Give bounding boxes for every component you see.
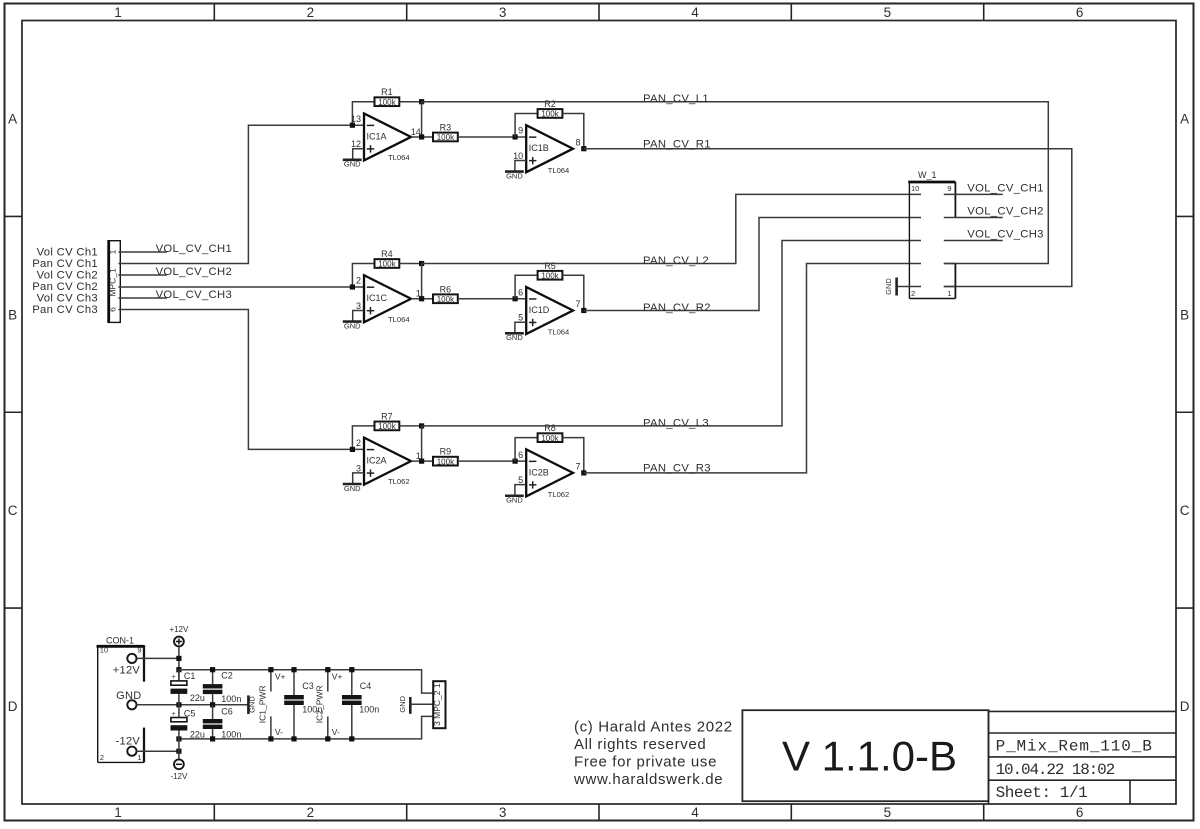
svg-text:100n: 100n <box>359 705 379 715</box>
svg-text:TL064: TL064 <box>388 315 410 324</box>
svg-text:R4: R4 <box>381 249 393 259</box>
svg-text:V-: V- <box>275 727 283 737</box>
svg-text:GND: GND <box>248 696 257 713</box>
node junction at IC1C inverting input <box>350 284 355 289</box>
CON-1 -12V pin circle <box>127 747 136 756</box>
svg-text:Vol CV Ch3: Vol CV Ch3 <box>37 293 98 305</box>
resistor R4 <box>375 249 400 269</box>
svg-text:Sheet: 1/1: Sheet: 1/1 <box>996 784 1088 802</box>
svg-text:GND: GND <box>116 690 141 702</box>
node junction at IC1A output <box>419 134 424 139</box>
svg-text:2: 2 <box>356 276 361 286</box>
wire MPC_1 pin 4 Pan CV Ch2 to IC1C <box>118 286 364 288</box>
ground symbol at IC1D <box>505 333 524 342</box>
svg-text:IC1D: IC1D <box>529 305 550 315</box>
ground symbol at W_1 pin 2 <box>884 278 897 296</box>
node junction C3 top <box>291 667 296 672</box>
wire R9 to IC2B inverting input <box>458 460 526 462</box>
node junction pin1/-12V <box>176 749 181 754</box>
wire IC2A output to R9 <box>411 460 433 462</box>
capacitor C4 <box>342 670 379 739</box>
svg-text:100k: 100k <box>541 271 559 280</box>
op-amp IC2A <box>356 438 421 487</box>
IC2B + input stub and ground wire <box>515 485 526 496</box>
svg-text:IC1A: IC1A <box>367 131 387 141</box>
svg-text:3 MPC_2 1: 3 MPC_2 1 <box>432 683 442 726</box>
wire net PAN_CV_R3 from IC2B output to W_1 pin 4 <box>584 264 921 473</box>
power flag IC1_PWR <box>257 670 285 739</box>
node junction IC1_PWR V+ <box>268 667 273 672</box>
wire W_1 pin 2 to ground <box>897 286 921 288</box>
svg-text:B: B <box>8 307 17 322</box>
W_1 pin 3 stub <box>944 263 956 265</box>
resistor R6 <box>433 284 458 304</box>
version box <box>742 710 988 801</box>
ground symbol at IC2B <box>505 496 524 505</box>
svg-text:TL062: TL062 <box>388 477 410 486</box>
svg-text:GND: GND <box>344 160 361 169</box>
wire MPC_1 pin 5 to net VOL_CV_CH3 <box>118 297 166 299</box>
svg-text:1: 1 <box>114 805 122 820</box>
svg-text:PAN_CV_R3: PAN_CV_R3 <box>643 463 711 475</box>
wire CON-1 pin 1 to -12V <box>137 750 179 752</box>
wire V+ rail <box>179 670 433 693</box>
wire ground to MPC_2 pin 2 <box>410 703 433 705</box>
node junction above IC2A output <box>419 423 424 428</box>
svg-text:100k: 100k <box>378 260 396 269</box>
capacitor C3 <box>284 670 322 739</box>
svg-text:1: 1 <box>947 289 951 298</box>
svg-text:100k: 100k <box>541 110 559 119</box>
node junction at IC1B inverting input <box>513 134 518 139</box>
svg-text:TL064: TL064 <box>548 328 570 337</box>
wire junction down to IC2A output <box>421 426 423 461</box>
svg-text:GND: GND <box>506 496 523 505</box>
svg-text:TL064: TL064 <box>388 153 410 162</box>
node junction C3 bottom <box>291 736 296 741</box>
capacitor C1 electrolytic <box>171 670 205 705</box>
svg-text:IC2_PWR: IC2_PWR <box>314 685 324 723</box>
svg-text:D: D <box>1180 699 1190 714</box>
ground symbol at IC1A <box>343 160 362 169</box>
node junction IC2_PWR V+ <box>325 667 330 672</box>
capacitor C2 <box>203 670 242 705</box>
node junction +12V rail start <box>176 667 181 672</box>
svg-text:GND: GND <box>506 333 523 342</box>
svg-text:5: 5 <box>884 805 892 820</box>
resistor R1 <box>375 87 400 107</box>
ground symbol at IC1C <box>343 321 362 330</box>
capacitor C5 electrolytic <box>171 708 205 739</box>
wire V- rail <box>179 716 433 739</box>
svg-text:9: 9 <box>518 126 523 136</box>
node junction C4 bottom <box>349 736 354 741</box>
op-amp IC2B <box>518 449 580 499</box>
column labels top <box>114 5 1083 20</box>
svg-text:6: 6 <box>518 450 523 460</box>
svg-text:PAN_CV_R2: PAN_CV_R2 <box>643 302 711 314</box>
node junction C2 top <box>210 667 215 672</box>
wire net PAN_CV_L2 from R4 junction to W_1 pin 10 <box>422 194 921 263</box>
resistor R8 <box>538 423 563 443</box>
svg-text:100n: 100n <box>221 729 241 739</box>
svg-text:3: 3 <box>499 5 507 20</box>
svg-text:GND: GND <box>884 278 893 295</box>
svg-text:A: A <box>8 111 17 126</box>
svg-text:1: 1 <box>137 753 141 762</box>
wire MPC_1 pin 1 to net VOL_CV_CH1 <box>118 251 166 253</box>
svg-text:+12V: +12V <box>169 625 189 634</box>
node junction at IC2A inverting input <box>350 447 355 452</box>
resistor R5 <box>538 261 563 281</box>
svg-text:GND: GND <box>344 321 361 330</box>
wire net PAN_CV_R2 from IC1D output to W_1 pin 8 <box>584 218 921 311</box>
svg-text:9: 9 <box>137 646 141 655</box>
node junction GND at C1 <box>176 702 181 707</box>
connector CON-1 body <box>97 645 145 762</box>
svg-text:4: 4 <box>691 5 699 20</box>
IC1A + input stub and ground wire <box>353 149 364 160</box>
wire C5 to -12V symbol <box>178 731 180 760</box>
svg-text:IC1_PWR: IC1_PWR <box>257 685 267 723</box>
svg-text:C: C <box>8 503 18 518</box>
svg-text:C6: C6 <box>221 707 233 717</box>
svg-text:D: D <box>8 699 18 714</box>
copyright text block <box>573 718 733 788</box>
svg-text:(c) Harald Antes 2022: (c) Harald Antes 2022 <box>574 718 733 735</box>
node junction at IC1C output <box>419 296 424 301</box>
wire feedback loop of IC1D via R5 <box>515 275 538 299</box>
svg-text:10: 10 <box>100 646 108 655</box>
svg-text:PAN_CV_R1: PAN_CV_R1 <box>643 138 711 150</box>
svg-text:All rights reserved: All rights reserved <box>574 736 706 753</box>
CON-1 GND pin circle <box>127 700 136 709</box>
wire R3 to IC1B inverting input <box>458 136 526 138</box>
svg-text:B: B <box>1180 307 1189 322</box>
svg-text:R1: R1 <box>381 87 393 97</box>
power symbol +12V <box>169 625 189 646</box>
node junction IC1_PWR V- <box>268 736 273 741</box>
svg-text:Pan CV Ch3: Pan CV Ch3 <box>32 304 98 316</box>
svg-text:+12V: +12V <box>113 665 141 677</box>
wire net PAN_CV_L1 from R1 junction to W_1 pin 3 <box>422 102 1049 264</box>
svg-text:PAN_CV_L2: PAN_CV_L2 <box>643 255 709 267</box>
W_1 pin 1 stub <box>944 286 956 288</box>
wire R4 output to junction <box>399 263 421 265</box>
right border row ticks <box>1176 216 1194 608</box>
wire feedback loop of IC1C via R4 <box>352 264 374 288</box>
wire R8 to IC2B output <box>562 438 583 473</box>
svg-text:R5: R5 <box>544 261 556 271</box>
node junction at IC2B output <box>581 470 586 475</box>
svg-text:GND: GND <box>506 171 523 180</box>
svg-text:IC2A: IC2A <box>367 456 387 466</box>
svg-text:PAN_CV_L3: PAN_CV_L3 <box>643 417 709 429</box>
resistor R9 <box>433 447 458 467</box>
node junction C2/C6 GND <box>210 702 215 707</box>
svg-text:Vol CV Ch2: Vol CV Ch2 <box>37 270 98 282</box>
svg-text:VOL_CV_CH1: VOL_CV_CH1 <box>967 182 1043 194</box>
wire feedback loop of IC2B via R8 <box>515 438 538 462</box>
svg-text:3: 3 <box>499 805 507 820</box>
svg-text:100k: 100k <box>437 295 455 304</box>
wire GND row to C5 top <box>178 705 180 718</box>
wire CON-1 pin 9 to +12V rail <box>137 657 179 659</box>
svg-text:R8: R8 <box>544 423 556 433</box>
node junction V- rail start <box>176 736 181 741</box>
node junction IC2_PWR V- <box>325 736 330 741</box>
svg-text:2: 2 <box>307 805 315 820</box>
title block frame <box>989 711 1176 803</box>
svg-text:V+: V+ <box>275 671 286 681</box>
svg-text:8: 8 <box>576 137 581 147</box>
svg-text:3: 3 <box>356 301 361 311</box>
svg-text:+: + <box>171 674 175 681</box>
svg-text:V-: V- <box>332 727 340 737</box>
svg-text:R6: R6 <box>440 284 452 294</box>
wire junction down to IC1C output <box>421 264 423 299</box>
svg-text:VOL_CV_CH2: VOL_CV_CH2 <box>156 266 232 278</box>
svg-text:VOL_CV_CH2: VOL_CV_CH2 <box>967 205 1043 217</box>
svg-text:+: + <box>171 711 175 718</box>
wire feedback loop of IC1B via R2 <box>515 113 538 137</box>
svg-text:C: C <box>1180 503 1190 518</box>
svg-text:22u: 22u <box>190 729 205 739</box>
svg-text:CON-1: CON-1 <box>106 635 134 645</box>
wire R1 output to junction <box>399 101 421 103</box>
svg-text:2: 2 <box>100 753 104 762</box>
svg-text:100k: 100k <box>378 422 396 431</box>
svg-text:C3: C3 <box>302 681 314 691</box>
svg-text:100k: 100k <box>541 434 559 443</box>
svg-text:IC2B: IC2B <box>529 467 549 477</box>
svg-text:TL062: TL062 <box>548 490 570 499</box>
resistor R3 <box>433 122 458 142</box>
svg-text:www.haraldswerk.de: www.haraldswerk.de <box>573 771 723 788</box>
svg-text:C1: C1 <box>184 671 196 681</box>
ground symbol power GND <box>248 695 257 714</box>
node junction above IC1A output <box>419 99 424 104</box>
svg-text:3: 3 <box>356 463 361 473</box>
wire feedback loop of IC2A via R7 <box>352 426 374 450</box>
svg-text:6: 6 <box>1076 5 1084 20</box>
svg-text:V 1.1.0-B: V 1.1.0-B <box>782 733 957 780</box>
svg-text:R2: R2 <box>544 99 556 109</box>
svg-text:V+: V+ <box>332 671 343 681</box>
svg-text:4: 4 <box>691 805 699 820</box>
node junction C4 top <box>349 667 354 672</box>
IC2A + input stub and ground wire <box>353 473 364 484</box>
svg-text:C4: C4 <box>360 681 372 691</box>
svg-text:A: A <box>1180 111 1189 126</box>
svg-text:6: 6 <box>518 287 523 297</box>
power flag IC2_PWR <box>314 670 342 739</box>
ground symbol at IC2A <box>343 484 362 493</box>
node junction at IC1B output <box>581 146 586 151</box>
wire W_1 pin 9 to net VOL_CV_CH1 <box>944 193 1003 195</box>
svg-text:13: 13 <box>351 114 361 124</box>
svg-text:GND: GND <box>344 484 361 493</box>
svg-text:6: 6 <box>1076 805 1084 820</box>
top border column ticks <box>214 4 983 21</box>
svg-text:1: 1 <box>108 249 118 254</box>
wire W_1 pin 7 to net VOL_CV_CH2 <box>944 217 1003 219</box>
left border row ticks <box>5 216 23 608</box>
bottom border column ticks <box>214 804 983 821</box>
connector W_1 body <box>908 182 955 299</box>
svg-text:7: 7 <box>576 299 581 309</box>
svg-text:5: 5 <box>518 313 523 323</box>
wire net PAN_CV_L3 from R7 junction to W_1 pin 6 <box>422 241 921 426</box>
svg-text:-12V: -12V <box>170 772 188 781</box>
node junction at IC1D output <box>581 308 586 313</box>
svg-text:IC1C: IC1C <box>367 293 388 303</box>
svg-text:PAN_CV_L1: PAN_CV_L1 <box>643 93 709 105</box>
wire IC1A output to R3 <box>411 136 433 138</box>
connector MPC_2 body <box>433 681 445 728</box>
svg-text:C2: C2 <box>221 670 233 680</box>
svg-text:MPC_1: MPC_1 <box>108 268 118 297</box>
node junction C6 bottom <box>210 736 215 741</box>
svg-text:Free for private use: Free for private use <box>574 754 717 771</box>
CON-1 +12V pin circle <box>127 654 136 663</box>
IC1B + input stub and ground wire <box>515 160 526 171</box>
wire GND row <box>137 704 249 706</box>
wire R7 output to junction <box>399 425 421 427</box>
wire R6 to IC1D inverting input <box>458 298 526 300</box>
svg-text:R9: R9 <box>440 447 452 457</box>
node junction at IC2B inverting input <box>513 459 518 464</box>
svg-text:10: 10 <box>911 184 919 193</box>
svg-text:Pan CV Ch2: Pan CV Ch2 <box>32 281 98 293</box>
svg-text:22u: 22u <box>190 693 205 703</box>
wire W_1 pin 5 to net VOL_CV_CH3 <box>944 240 1003 242</box>
svg-text:VOL_CV_CH3: VOL_CV_CH3 <box>967 228 1043 240</box>
svg-text:10.04.22 18:02: 10.04.22 18:02 <box>996 761 1115 779</box>
svg-text:100n: 100n <box>221 694 241 704</box>
node junction at IC1A inverting input <box>350 123 355 128</box>
svg-text:VOL_CV_CH1: VOL_CV_CH1 <box>156 243 232 255</box>
svg-text:2: 2 <box>356 438 361 448</box>
node junction above IC1C output <box>419 261 424 266</box>
svg-text:C5: C5 <box>184 708 196 718</box>
svg-text:-12V: -12V <box>116 736 141 748</box>
op-amp IC1C <box>356 275 421 324</box>
svg-text:Pan CV Ch1: Pan CV Ch1 <box>32 258 98 270</box>
svg-text:VOL_CV_CH3: VOL_CV_CH3 <box>156 289 232 301</box>
wire +12V symbol to rail <box>178 646 180 681</box>
svg-text:9: 9 <box>947 184 951 193</box>
node junction at IC1D inverting input <box>513 296 518 301</box>
svg-text:1: 1 <box>114 5 122 20</box>
resistor R7 <box>375 411 400 431</box>
svg-text:100k: 100k <box>437 133 455 142</box>
svg-text:TL064: TL064 <box>548 166 570 175</box>
wire R2 to IC1B output <box>562 113 583 148</box>
column labels bottom <box>114 805 1083 820</box>
svg-text:12: 12 <box>351 139 361 149</box>
node junction at IC2A output <box>419 459 424 464</box>
wire MPC_1 pin 2 Pan CV Ch1 to IC1A <box>118 125 364 263</box>
svg-text:7: 7 <box>576 461 581 471</box>
svg-text:10: 10 <box>513 151 523 161</box>
ground symbol at IC1B <box>505 171 524 180</box>
svg-text:P_Mix_Rem_110_B: P_Mix_Rem_110_B <box>996 738 1153 756</box>
resistor R2 <box>538 99 563 119</box>
svg-text:6: 6 <box>108 307 118 312</box>
wire R5 to IC1D output <box>562 275 583 310</box>
op-amp IC1B <box>513 125 580 175</box>
IC1D + input stub and ground wire <box>515 322 526 333</box>
svg-text:5: 5 <box>884 5 892 20</box>
svg-text:100k: 100k <box>437 457 455 466</box>
capacitor C6 <box>203 705 242 740</box>
wire feedback loop of IC1A via R1 <box>352 102 374 126</box>
svg-text:2: 2 <box>911 289 915 298</box>
node junction pin9/+12V <box>176 656 181 661</box>
svg-text:GND: GND <box>398 695 407 712</box>
svg-text:100k: 100k <box>378 98 396 107</box>
row labels left <box>8 111 18 714</box>
wire IC1C output to R6 <box>411 298 433 300</box>
row labels right <box>1180 111 1190 714</box>
svg-text:Vol CV Ch1: Vol CV Ch1 <box>37 247 98 259</box>
wire junction down to IC1A output <box>421 102 423 137</box>
svg-text:R3: R3 <box>440 122 452 132</box>
op-amp IC1A <box>351 113 421 162</box>
wire MPC_1 pin 3 to net VOL_CV_CH2 <box>118 274 166 276</box>
wire MPC_1 pin 6 Pan CV Ch3 to IC2A <box>118 310 364 450</box>
wire net PAN_CV_R1 from IC1B output to W_1 pin 1 <box>584 149 1072 287</box>
op-amp IC1D <box>518 287 580 337</box>
IC1C + input stub and ground wire <box>353 311 364 322</box>
connector MPC_1 body <box>109 240 121 323</box>
ground symbol at MPC_2 <box>398 695 410 713</box>
svg-text:5: 5 <box>518 475 523 485</box>
svg-text:IC1B: IC1B <box>529 143 549 153</box>
power symbol -12V <box>170 759 188 781</box>
svg-text:2: 2 <box>307 5 315 20</box>
svg-text:R7: R7 <box>381 411 393 421</box>
svg-text:W_1: W_1 <box>918 170 937 180</box>
